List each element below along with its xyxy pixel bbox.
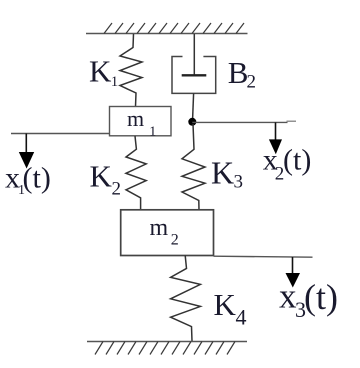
svg-text:m: m: [127, 106, 144, 131]
svg-text:m: m: [150, 215, 169, 241]
svg-text:1: 1: [111, 74, 119, 90]
svg-text:2: 2: [247, 72, 257, 93]
svg-text:K: K: [89, 54, 112, 89]
svg-text:K: K: [211, 154, 234, 190]
svg-text:2: 2: [171, 231, 179, 248]
svg-text:2: 2: [112, 178, 122, 199]
svg-text:1: 1: [149, 124, 156, 139]
svg-text:K: K: [214, 287, 237, 322]
svg-text:4: 4: [236, 305, 247, 330]
svg-text:3: 3: [234, 172, 244, 193]
svg-text:K: K: [90, 159, 113, 194]
svg-text:B: B: [228, 55, 249, 90]
svg-text:(t): (t): [283, 144, 311, 177]
svg-text:(t): (t): [304, 277, 338, 317]
svg-text:(t): (t): [23, 161, 51, 194]
